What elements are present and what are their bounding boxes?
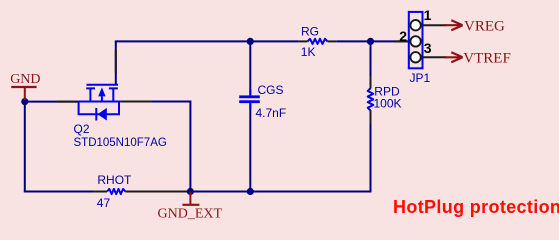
svg-text:100K: 100K <box>374 97 402 111</box>
wire: GND stub to Q2 source <box>25 101 79 103</box>
pin JP1.1 lead <box>423 24 447 26</box>
node: junction bus/CGS top <box>247 38 254 45</box>
pin CGS top (blue stub) <box>249 89 251 95</box>
power port GND_EXT: bar <box>182 204 199 206</box>
transistor Q2: body-diode loop <box>79 102 119 115</box>
transistor Q2: body diode triangle (points left) <box>98 108 107 121</box>
svg-text:3: 3 <box>424 40 432 56</box>
svg-text:RHOT: RHOT <box>97 173 132 187</box>
svg-text:JP1: JP1 <box>410 71 431 85</box>
svg-text:1K: 1K <box>301 45 316 59</box>
resistor RHOT (zigzag) <box>107 189 125 194</box>
svg-text:Q2: Q2 <box>74 122 90 136</box>
svg-text:STD105N10F7AG: STD105N10F7AG <box>74 137 167 149</box>
node: junction bottom bus / drain riser / GND_EXT <box>187 188 194 195</box>
transistor Q2: bulk arrow (points up) <box>101 97 103 102</box>
wire: gate riser from top bus down to Q2 gate <box>115 41 117 84</box>
svg-text:4.7nF: 4.7nF <box>256 106 287 120</box>
port arrow VTREF <box>445 52 463 62</box>
port arrow VREG <box>445 20 463 30</box>
transistor Q2: drain contact tick + lead <box>109 88 118 101</box>
wire: Q2 drain run right then down to bottom bus <box>120 102 190 192</box>
node: junction bus/RPD top <box>367 38 374 45</box>
transistor Q2 body: gate bar <box>87 84 119 86</box>
pin RG right lead (black) <box>328 40 337 42</box>
svg-text:HotPlug protection: HotPlug protection <box>393 197 559 217</box>
wire: RPD bottom drop to bottom bus <box>370 110 371 191</box>
transistor Q2: body diode cathode bar <box>95 108 97 121</box>
capacitor CGS plate bottom <box>239 100 260 103</box>
pin JP1.3 circle <box>410 52 420 62</box>
pin JP1.2 lead (black segment) <box>394 40 409 42</box>
resistor RPD (vertical zigzag) <box>368 88 374 110</box>
wire: CGS top drop from bus <box>249 41 251 95</box>
wire: RPD top drop from bus <box>370 41 372 88</box>
pin JP1.1 circle <box>410 20 420 30</box>
transistor Q2: source contact tick + lead <box>86 88 95 101</box>
svg-text:CGS: CGS <box>258 83 284 97</box>
pin Q2 gate (black segment) <box>115 50 117 73</box>
svg-text:47: 47 <box>97 196 111 210</box>
resistor RG (zigzag) <box>308 39 328 44</box>
transistor Q2: bottom rail <box>79 101 121 103</box>
power port GND: stem <box>24 87 26 100</box>
pin JP1.3 lead <box>423 56 447 58</box>
pin Q2 drain (black segment) <box>120 101 152 103</box>
pin Q2 source (black segment) <box>57 101 77 103</box>
svg-text:GND_EXT: GND_EXT <box>158 207 223 222</box>
svg-text:RG: RG <box>301 24 319 38</box>
pin RPD top (black segment) <box>370 76 372 89</box>
capacitor CGS plate top <box>239 95 260 98</box>
pin RHOT left lead (black) <box>93 191 107 193</box>
pin CGS bottom (blue stub) <box>249 103 251 110</box>
connector JP1 body <box>409 12 423 68</box>
svg-text:1: 1 <box>424 7 432 23</box>
svg-text:2: 2 <box>399 28 407 44</box>
wire: CGS bottom drop to bottom bus <box>249 103 251 192</box>
power port GND_EXT: stem <box>189 192 191 205</box>
power port GND: bar <box>11 86 36 88</box>
svg-text:VREG: VREG <box>464 19 505 35</box>
pin RG left lead (black) <box>299 40 308 42</box>
wire: bottom bus <box>24 191 371 193</box>
svg-text:GND: GND <box>10 72 40 87</box>
wire: top horizontal bus from gate riser to JP1 pin2 <box>115 40 409 42</box>
node: junction bottom bus / CGS bottom <box>247 188 254 195</box>
pin JP1.2 circle <box>410 36 420 46</box>
wire: left vertical from GND junction to bottom bus <box>24 102 26 192</box>
svg-text:VTREF: VTREF <box>463 51 511 67</box>
node: junction GND/Q2 source <box>21 98 28 105</box>
pin RPD bottom (black segment) <box>370 110 372 123</box>
pin RHOT right lead (black) <box>126 191 192 193</box>
